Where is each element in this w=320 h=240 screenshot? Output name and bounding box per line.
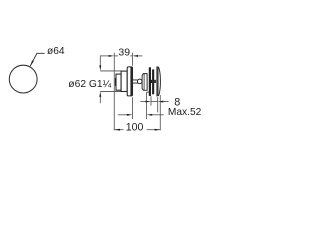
side view: cap dome bbox=[158, 67, 160, 96]
dim 39: extension line right bbox=[131, 53, 133, 66]
connector between plates bbox=[151, 80, 152, 83]
dim ø62: top extension line bbox=[100, 70, 121, 72]
seat lip bbox=[147, 91, 150, 93]
dim ø62: bottom riser + up arrow bbox=[99, 91, 101, 97]
svg-text:39: 39 bbox=[118, 46, 130, 58]
svg-text:100: 100 bbox=[126, 121, 144, 133]
dim 39: extension line left bbox=[113, 53, 115, 131]
leader line for ø64 bbox=[30, 53, 44, 66]
dim Max.52: extension line left (flange face) bbox=[131, 97, 133, 119]
dim 100: left arrow bbox=[114, 129, 120, 131]
side view: cone cup bbox=[142, 74, 147, 91]
side view: ball joint bbox=[137, 79, 142, 84]
flange rim dark band bbox=[130, 67, 132, 95]
dim 39: right arrow bbox=[132, 55, 138, 57]
dim 39: line + tails bbox=[100, 55, 109, 57]
dim 8: right arrow bbox=[158, 101, 164, 103]
cap rim line bbox=[157, 67, 159, 96]
dim 100: line segments bbox=[114, 129, 123, 131]
dim 8: line + tails bbox=[140, 101, 146, 103]
side view: flange disc ø62 bbox=[127, 67, 132, 96]
connector to cap bbox=[154, 80, 156, 83]
side view: washer plate 1 bbox=[149, 67, 151, 96]
dim 8: extension line left bbox=[150, 96, 152, 105]
dim 8: extension line right bbox=[157, 97, 159, 112]
dim Max.52: right arrow bbox=[147, 114, 153, 116]
dim Max.52: extension line right (cup face) bbox=[146, 92, 148, 119]
dim 100: right arrow bbox=[155, 129, 161, 131]
dim ø62: bottom extension line bbox=[100, 90, 121, 92]
leader arrowhead bbox=[30, 60, 34, 66]
cup lip line bbox=[143, 74, 145, 91]
dim 100: extension line right bbox=[159, 95, 161, 130]
dim ø62: top riser + down arrow bbox=[99, 56, 101, 66]
dim Max.52: right tail bbox=[152, 114, 164, 116]
dim Max.52: left tail bbox=[118, 114, 128, 116]
dim 39: left arrow bbox=[109, 55, 115, 57]
front view circle (cap ø64) bbox=[9, 65, 37, 93]
cap flat face bbox=[156, 66, 158, 96]
side view: mid cylinder G1 1/4 thread bbox=[121, 71, 127, 91]
dim 8: left arrow bbox=[145, 101, 151, 103]
svg-text:ø62 G1¼: ø62 G1¼ bbox=[68, 78, 111, 90]
svg-text:Max.52: Max.52 bbox=[168, 107, 202, 118]
side view: back cylinder bbox=[116, 74, 121, 90]
side view: washer plate 2 bbox=[152, 69, 154, 94]
dim Max.52: left arrow bbox=[127, 114, 133, 116]
side view: stem bbox=[133, 80, 140, 83]
svg-text:ø64: ø64 bbox=[47, 46, 65, 57]
side view: left nub bbox=[115, 78, 116, 86]
